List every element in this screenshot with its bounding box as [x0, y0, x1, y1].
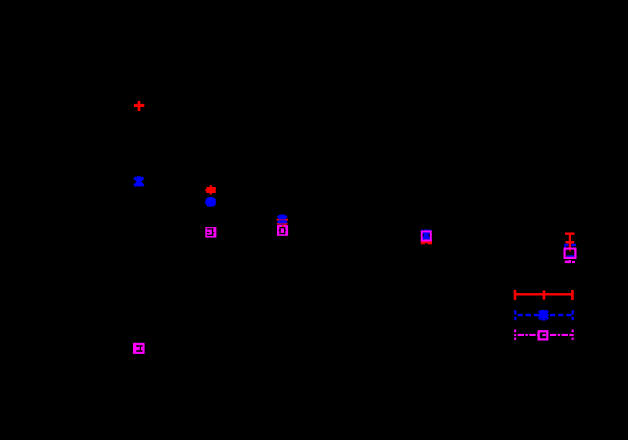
red error bar tip inside M5	[569, 249, 571, 251]
red vertical error bar of cluster C10	[565, 233, 575, 248]
red stripes under asterisk A3	[277, 219, 288, 226]
blue dashes of cluster C10	[564, 244, 576, 257]
red error bar of cluster C9	[421, 236, 432, 244]
magenta open box marker M4 of cluster C9	[422, 231, 431, 240]
blue asterisk marker A4 in cluster C9	[421, 230, 431, 242]
red plus marker with error bars P2	[205, 185, 216, 195]
legend blue dashed sample line	[515, 310, 574, 320]
magenta box marker M1	[205, 227, 216, 238]
legend blue asterisk marker A5	[538, 310, 548, 321]
legend red errorbar sample line	[514, 290, 574, 300]
blue asterisk marker A1	[134, 176, 143, 186]
magenta box marker M3	[133, 343, 145, 354]
legend magenta dash-dot sample line	[515, 330, 573, 340]
magenta box marker M2	[277, 225, 288, 236]
red plus marker P1	[134, 101, 144, 111]
blue asterisk marker A3	[277, 215, 287, 225]
magenta open box marker M5 of cluster C10	[565, 249, 576, 258]
legend magenta open box marker M6	[539, 331, 548, 339]
magenta dashes below M5	[565, 260, 575, 263]
blue asterisk marker with error bars A2	[205, 197, 216, 207]
